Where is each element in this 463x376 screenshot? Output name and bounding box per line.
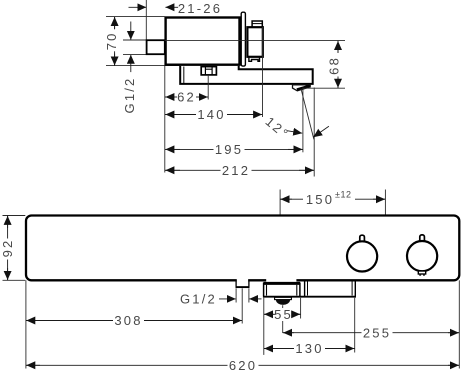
center line through body, knob and 68 reference: [165, 39, 345, 41]
svg-text:G1/2: G1/2: [180, 292, 217, 307]
outlet right extension (55): [300, 298, 302, 319]
bar bottom line gap at outlet box: [266, 278, 296, 282]
svg-text:195: 195: [215, 142, 243, 157]
aerator face (thick slant): [297, 86, 310, 90]
dim 12 deg leader: [287, 131, 302, 134]
bar bottom line gap at G1/2 connector: [237, 278, 249, 282]
dim 21-26: [129, 6, 147, 8]
knob top tab: [252, 21, 262, 27]
dim 140: [165, 114, 263, 116]
svg-text:620: 620: [229, 358, 257, 373]
shallow connection box below bar: [304, 282, 306, 297]
svg-text:212: 212: [222, 163, 250, 178]
common bottom edge of outlet and connection boxes: [263, 296, 356, 298]
bar left extension (308/620): [25, 280, 27, 368]
svg-text:±12: ±12: [335, 190, 351, 200]
knob bottom tab: [249, 58, 260, 62]
escutcheon plate: [241, 12, 245, 66]
svg-text:308: 308: [114, 313, 142, 328]
68 bottom extension line: [303, 87, 345, 89]
92 dim extension lines: [3, 215, 26, 217]
dim 308: [26, 320, 242, 322]
tub spout outlet box: [263, 283, 265, 297]
water spray line 12 deg: [301, 89, 314, 140]
spout left inner line: [183, 67, 185, 84]
mixer body: [166, 18, 240, 65]
supply elbow (G1/2 wall connection): [147, 40, 165, 54]
svg-text:150: 150: [306, 192, 334, 207]
body back extension line (62/140/195/212): [164, 66, 166, 173]
dim 195: [165, 148, 303, 150]
dim 62: [165, 96, 208, 98]
dim 620: [26, 364, 459, 366]
aerator (tilted outlet under spout tip): [293, 85, 311, 91]
spout tip extension line (212): [313, 88, 315, 177]
outlet left extension (55/130): [263, 298, 265, 355]
knob 2 (volume control): [407, 241, 437, 271]
dim 255: [283, 332, 460, 334]
dim 150 +-12: [280, 198, 385, 200]
spout mounting nut: [201, 67, 216, 75]
svg-text:140: 140: [197, 107, 225, 122]
wall plane extension line: [145, 0, 147, 40]
knob 1 pin: [360, 235, 365, 243]
svg-text:70: 70: [104, 31, 119, 50]
dim 70: [114, 17, 116, 66]
dim 212: [165, 169, 314, 171]
svg-text:62: 62: [177, 90, 196, 105]
G1/2 connector edge extensions: [235, 288, 237, 302]
spout (side view): [180, 66, 313, 84]
nut center extension (62): [207, 75, 209, 100]
knob 2 bottom pin: [418, 271, 425, 274]
G1/2 connector below bar: [235, 280, 237, 287]
water spray reference vertical (195 extension): [302, 88, 304, 153]
bar right extension (255/620): [458, 280, 460, 368]
G1/2 dim extension lines (elbow top/bottom): [123, 39, 146, 41]
knob (handle, side view): [247, 27, 262, 57]
dim 92: [7, 216, 9, 281]
G1/2 connector center extension (308): [241, 288, 243, 323]
svg-text:G1/2: G1/2: [122, 77, 137, 114]
svg-text:55: 55: [274, 307, 293, 322]
bar (front view): [26, 216, 459, 281]
shallow box right extension (130): [354, 298, 356, 353]
dim 68: [337, 41, 339, 88]
dim 55: [264, 313, 301, 315]
aerator collar: [275, 297, 292, 299]
svg-text:130: 130: [295, 341, 323, 356]
body top extension line (left): [106, 16, 165, 18]
dim G1/2 (top view supply): [130, 22, 132, 40]
outlet center extension (255): [282, 305, 284, 333]
dim 130: [264, 348, 355, 350]
svg-text:68: 68: [326, 56, 341, 75]
body bottom extension line (left): [106, 65, 180, 67]
svg-text:92: 92: [0, 239, 15, 258]
svg-text:21-26: 21-26: [178, 1, 222, 16]
aerator dome: [276, 300, 291, 305]
knob 1 (thermostat): [347, 241, 377, 271]
svg-text:255: 255: [363, 325, 391, 340]
knob front extension (140): [262, 27, 264, 117]
knob 2 pin: [420, 235, 425, 243]
150 dim extension lines: [279, 190, 281, 215]
